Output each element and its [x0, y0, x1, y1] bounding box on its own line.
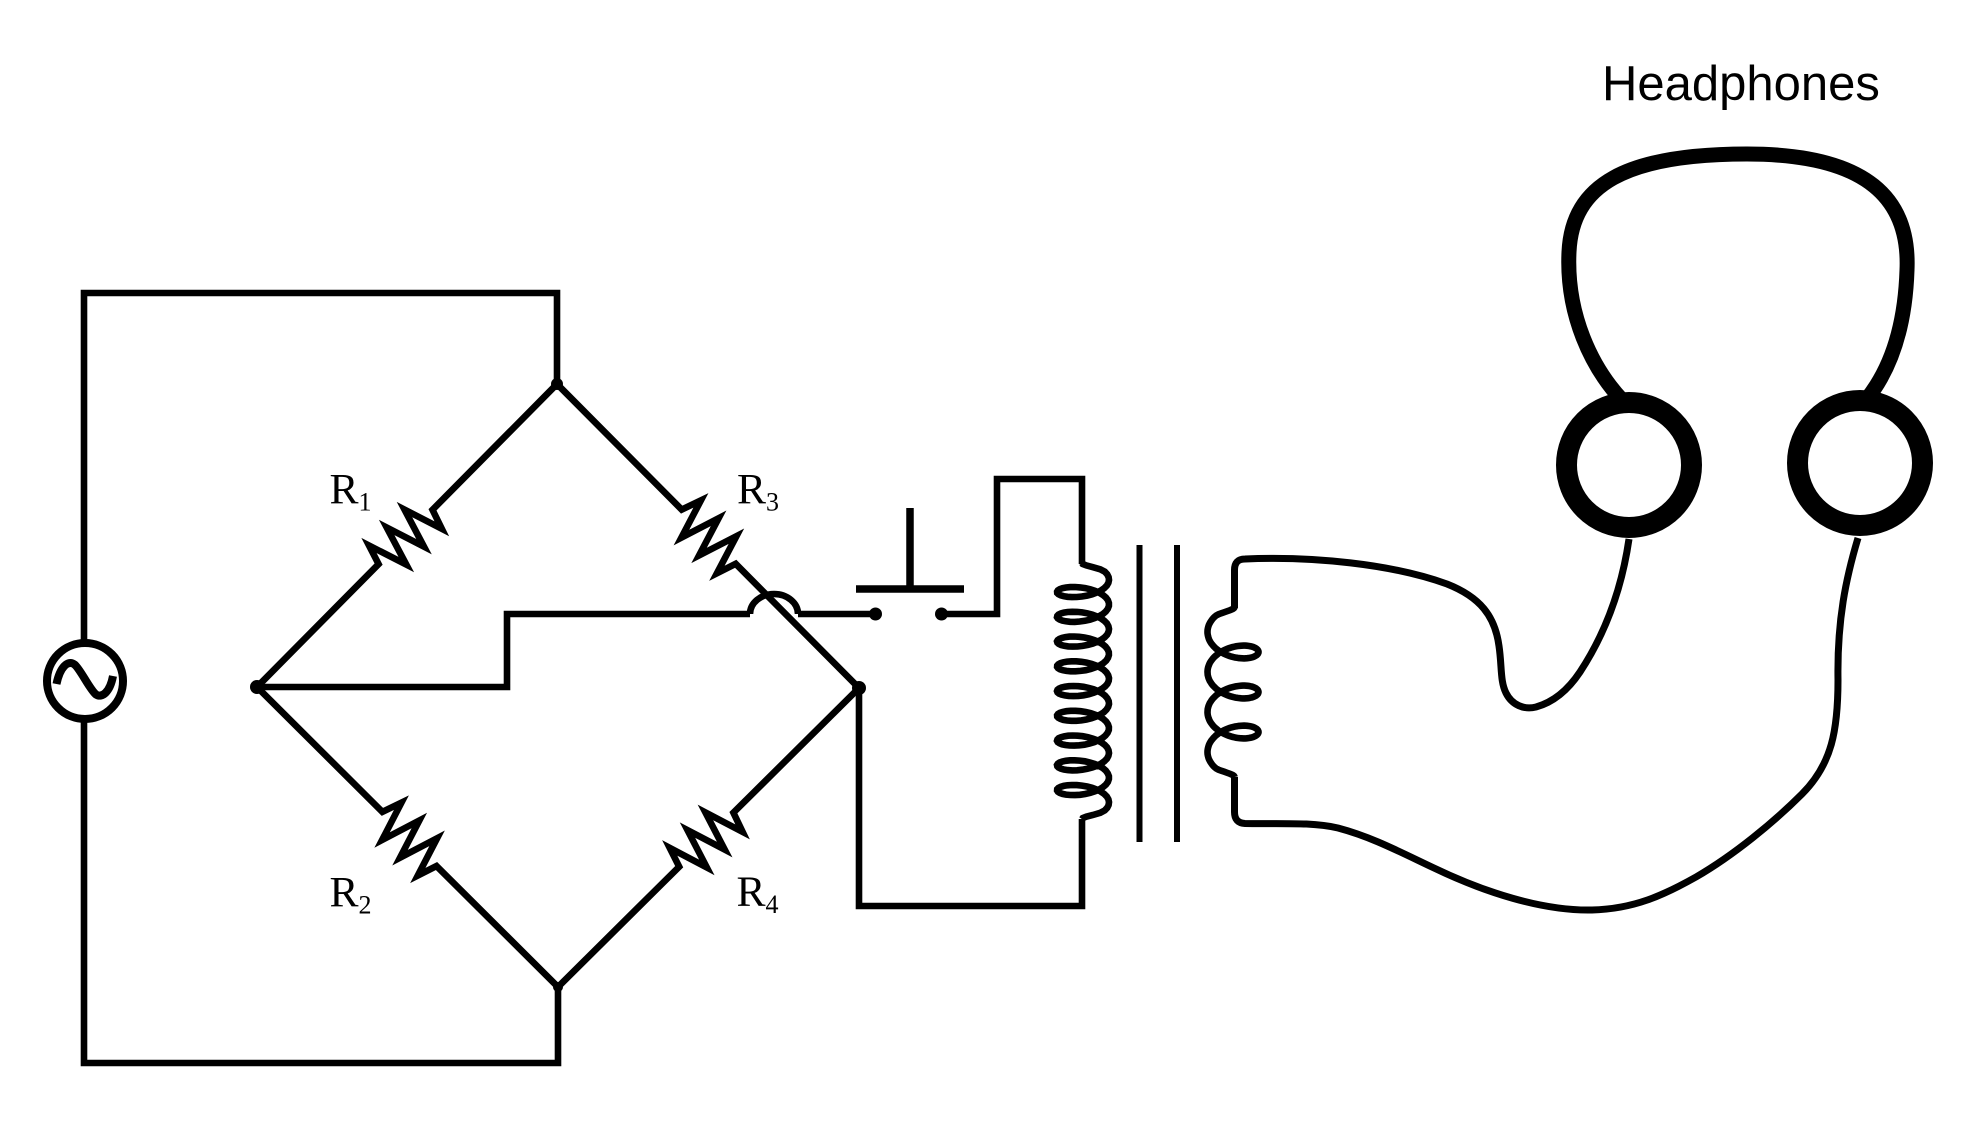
switch S1 left contact — [869, 608, 882, 621]
headphone earpiece left — [1567, 403, 1692, 528]
wire primary bottom to bridge right node — [859, 688, 1082, 906]
wire secondary top to left earpiece cord — [1235, 539, 1630, 708]
resistor R1 — [257, 384, 557, 687]
wire bridge output from left node with step — [257, 614, 750, 687]
node left junction — [250, 680, 264, 694]
AC source V1 — [47, 643, 123, 719]
headphones headband — [1569, 154, 1907, 400]
svg-text:R1: R1 — [330, 466, 372, 517]
wire bottom rail from source to bottom node — [84, 719, 558, 1063]
node bottom junction — [553, 982, 563, 992]
resistor R4 — [558, 688, 859, 987]
node right junction — [852, 681, 866, 695]
svg-text:Headphones: Headphones — [1602, 57, 1880, 111]
node top junction — [551, 378, 563, 390]
transformer T1 secondary coil — [1208, 607, 1259, 777]
wire hop over R3 arm — [750, 594, 798, 614]
wire secondary bottom to right earpiece cord — [1235, 538, 1859, 910]
transformer T1 primary coil — [1057, 563, 1109, 819]
resistor R2 — [257, 687, 558, 987]
svg-text:R2: R2 — [330, 869, 372, 920]
resistor R3 — [557, 384, 859, 688]
headphone earpiece right — [1798, 401, 1923, 526]
switch S1 right contact — [935, 608, 948, 621]
svg-text:R4: R4 — [737, 868, 779, 919]
wire hop to left switch contact — [798, 611, 870, 618]
switch S1 actuator bar and stem — [856, 508, 964, 589]
wire right contact to transformer primary top — [947, 479, 1082, 614]
transformer core right bar — [1174, 545, 1180, 842]
transformer core left bar — [1137, 545, 1143, 842]
wire top rail from source to top node — [84, 293, 557, 643]
svg-text:R3: R3 — [737, 466, 779, 517]
